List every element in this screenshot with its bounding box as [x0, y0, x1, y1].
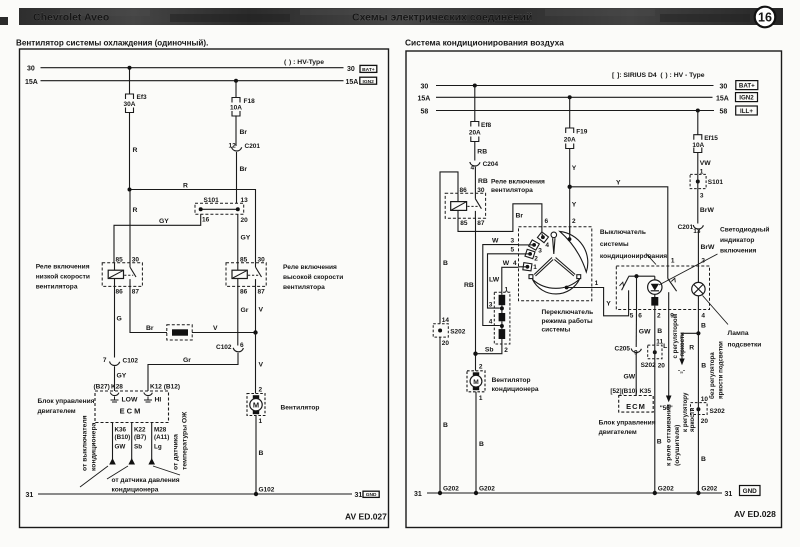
svg-text:(B27): (B27) — [94, 383, 110, 390]
fuse F19 20A — [566, 128, 574, 149]
svg-text:[52](B10): [52](B10) — [610, 388, 637, 395]
ground node G202 (motor) — [474, 491, 478, 495]
wire R horizontal: junction to right branch — [130, 190, 256, 263]
relay K1 coil — [108, 270, 123, 278]
svg-text:1: 1 — [533, 264, 537, 271]
wire Y: F19 down to junction — [569, 149, 571, 187]
svg-text:20A: 20A — [564, 136, 576, 143]
header bar — [19, 8, 783, 25]
svg-text:VW: VW — [700, 160, 712, 167]
right contact arc — [560, 231, 588, 272]
svg-text:-„-: -„- — [678, 369, 685, 375]
wire RB: C204 to relay K3 pin30 — [474, 167, 476, 194]
splice S101 — [195, 197, 248, 224]
svg-text:Br: Br — [516, 213, 524, 220]
svg-text:RB: RB — [464, 282, 474, 289]
bus 15A (left panel) — [41, 80, 344, 82]
label: от датчика давления кондиционера — [112, 477, 180, 494]
junction bus58/Ef15 — [696, 109, 700, 113]
svg-text:86: 86 — [460, 187, 468, 194]
svg-text:Sb: Sb — [485, 347, 494, 354]
label: Блок управления двигателем (right) — [599, 420, 656, 437]
svg-text:Лампа: Лампа — [728, 330, 749, 337]
wire GY: S101 pin16 to relay K1 pin85 — [114, 214, 201, 262]
svg-text:K22: K22 — [134, 427, 146, 434]
arrow from A/C pressure sensor signal — [128, 458, 135, 465]
svg-text:Вентилятор: Вентилятор — [281, 405, 320, 412]
wire Y: mode switch pin1 out to A/C switch pin5 — [567, 288, 629, 316]
svg-text:BAT+: BAT+ — [739, 83, 755, 90]
wire GW: SW2 pin6 to C205-9 — [635, 309, 637, 347]
leader to SW2 box — [646, 254, 656, 265]
svg-text:87: 87 — [477, 220, 485, 227]
svg-text:AV ED.027: AV ED.027 — [345, 512, 387, 522]
svg-text:кондиционера: кондиционера — [91, 422, 98, 471]
wire G: K1 pin86 to C102-7 — [114, 286, 116, 357]
ECM internal ground LOW — [111, 397, 119, 403]
svg-text:13: 13 — [693, 228, 701, 235]
SW2 LED series resistor — [654, 294, 656, 297]
svg-text:15A: 15A — [25, 79, 38, 86]
wire Y: junction to A/C switch pin1 — [570, 187, 668, 266]
svg-text:K28: K28 — [111, 383, 123, 390]
svg-text:подсветки: подсветки — [728, 342, 762, 349]
svg-text:яркости: яркости — [689, 407, 696, 432]
svg-text:2: 2 — [479, 363, 483, 370]
wire Gr: C102-6 to ECM pin K12 — [148, 353, 238, 391]
left panel border — [20, 49, 389, 528]
svg-text:10A: 10A — [230, 105, 242, 112]
connector C205 pin9 — [615, 346, 642, 357]
relay K2 contact — [255, 263, 257, 267]
wire: bus30 to fuse Ef8 — [474, 86, 476, 122]
ground node G202 (lamp B) — [696, 491, 700, 495]
svg-text:4: 4 — [471, 165, 475, 172]
svg-text:31: 31 — [355, 492, 363, 499]
junction Y node — [568, 185, 572, 189]
wire BrW: C201-13 to A/C switch pin3 — [697, 230, 699, 266]
svg-text:Y: Y — [572, 165, 577, 172]
junction bus15A/F19 — [568, 95, 572, 99]
svg-text:[ ]: SIRIUS D4 ( ) : HV - T: [ ]: SIRIUS D4 ( ) : HV - Type — [612, 72, 705, 79]
svg-text:HI: HI — [155, 397, 162, 404]
svg-text:с регулятором: с регулятором — [672, 313, 679, 358]
svg-text:1: 1 — [671, 258, 675, 265]
SW2 right contact (pins 1-9) — [667, 266, 669, 279]
svg-text:4: 4 — [545, 242, 549, 249]
svg-text:6: 6 — [638, 312, 642, 319]
svg-text:GW: GW — [624, 374, 636, 381]
op ECM block (right panel) — [619, 396, 654, 413]
wire RB: K3 pin87 down to A/C fan motor — [475, 218, 477, 371]
contact pad position 4 — [537, 232, 548, 243]
svg-text:M: M — [473, 379, 479, 386]
wire W/LW: mode pin4 to resistor pin1 — [519, 266, 528, 268]
relay K1 (low speed fan relay) — [102, 256, 142, 295]
svg-text:5: 5 — [630, 312, 634, 319]
svg-text:5: 5 — [511, 247, 515, 254]
resistor tap junctions — [500, 306, 504, 310]
svg-text:Система кондиционирования возд: Система кондиционирования воздуха — [405, 38, 564, 48]
GND tag box (right panel) — [740, 486, 761, 496]
rotated label: с регулятором яркости — [672, 313, 686, 358]
label: Блок управления двигателем — [38, 398, 95, 415]
switch SW1 mode selector (rotary) — [519, 218, 592, 301]
svg-text:3: 3 — [489, 301, 493, 308]
GND tag box (left panel) — [363, 491, 379, 498]
svg-text:B: B — [657, 328, 662, 335]
fuse Ef8 20A — [471, 122, 479, 142]
svg-text:3: 3 — [538, 247, 542, 254]
svg-text:Gr: Gr — [183, 357, 191, 364]
svg-text:Chevrolet Aveo: Chevrolet Aveo — [33, 12, 109, 24]
svg-text:BrW: BrW — [701, 244, 716, 251]
page number circle 16 — [755, 7, 776, 28]
rotated label: к регулятору яркости — [682, 392, 696, 432]
IGN2 tag box (right) — [736, 93, 758, 102]
ECM pin K28 socket arc — [110, 393, 119, 396]
svg-text:6: 6 — [240, 342, 244, 349]
svg-text:Sb: Sb — [134, 444, 142, 451]
svg-text:1: 1 — [259, 418, 263, 425]
bus 15A (right panel) — [436, 96, 713, 98]
svg-text:15A: 15A — [346, 79, 359, 86]
svg-text:вентилятора: вентилятора — [283, 284, 325, 291]
svg-text:S202: S202 — [710, 408, 726, 415]
label: Реле включения низкой скорости вентилятора — [36, 263, 90, 290]
svg-text:4: 4 — [701, 312, 705, 319]
svg-text:30: 30 — [477, 187, 485, 194]
bottom arc contact dot — [565, 286, 569, 290]
motor M2 A/C condenser fan — [467, 371, 485, 402]
svg-text:B: B — [701, 363, 706, 370]
svg-text:(B7): (B7) — [134, 434, 146, 441]
svg-text:4: 4 — [513, 260, 517, 267]
svg-text:4: 4 — [489, 319, 493, 326]
wire B: motor M2 to ground G202 — [475, 392, 477, 493]
svg-text:20: 20 — [241, 217, 249, 224]
connector C102 pin6 — [216, 342, 244, 352]
svg-text:58: 58 — [421, 109, 429, 116]
svg-text:87: 87 — [258, 289, 266, 296]
svg-text:R: R — [689, 345, 694, 352]
BAT+ tag box — [360, 65, 377, 73]
connector C201 pin13 — [678, 224, 704, 235]
svg-text:C102: C102 — [123, 358, 139, 365]
svg-text:V: V — [259, 362, 264, 369]
svg-text:GW: GW — [115, 444, 126, 451]
wire BrW: S101 to C201-13 — [697, 189, 699, 224]
svg-text:C201: C201 — [245, 143, 261, 150]
svg-text:B: B — [701, 322, 706, 329]
svg-text:58: 58 — [720, 109, 728, 116]
svg-text:Схемы электрических соединений: Схемы электрических соединений — [352, 12, 532, 24]
svg-text:режима работы: режима работы — [542, 317, 593, 325]
svg-text:16: 16 — [202, 217, 210, 224]
svg-text:B: B — [479, 441, 484, 448]
svg-text:вентилятора: вентилятора — [491, 187, 533, 194]
svg-text:IGN2: IGN2 — [362, 79, 374, 85]
scan artifact left edge — [0, 17, 8, 25]
wire GW: C205 to ECM K35 — [635, 353, 637, 395]
svg-text:S202: S202 — [450, 329, 466, 336]
wire B: S202 pin20 to ground G202 — [439, 337, 441, 493]
svg-text:Светодиодный: Светодиодный — [720, 225, 769, 233]
svg-text:(осушителя): (осушителя) — [674, 425, 681, 466]
svg-text:включения: включения — [720, 247, 757, 254]
svg-text:10A: 10A — [692, 142, 704, 149]
junction R node — [128, 188, 132, 192]
svg-text:яркости подсветки: яркости подсветки — [717, 341, 724, 399]
connector C102 pin7 — [103, 357, 139, 366]
leader to LED — [659, 254, 718, 285]
svg-text:V: V — [213, 325, 218, 332]
svg-text:Реле включения: Реле включения — [36, 263, 90, 270]
label: Реле включения высокой скорости вентилятора — [283, 264, 343, 291]
svg-text:Ef8: Ef8 — [481, 122, 492, 129]
svg-text:30: 30 — [421, 84, 429, 91]
bus 30 (right panel) — [436, 85, 714, 87]
arrow to terminal 56 — [666, 396, 672, 403]
rotor spokes — [534, 238, 575, 276]
svg-text:F19: F19 — [576, 129, 588, 136]
svg-text:L: L — [663, 343, 667, 350]
svg-text:30: 30 — [132, 256, 140, 263]
svg-text:86: 86 — [240, 289, 248, 296]
svg-text:LOW: LOW — [122, 397, 138, 404]
svg-text:Выключатель: Выключатель — [600, 229, 646, 236]
svg-text:2: 2 — [534, 255, 538, 262]
wire RB: Ef8 to C204 — [474, 142, 476, 161]
svg-text:двигателем: двигателем — [38, 408, 76, 415]
svg-text:14: 14 — [442, 317, 450, 324]
svg-text:G202: G202 — [701, 485, 717, 492]
op ECM block — [95, 391, 169, 423]
svg-text:Gr: Gr — [241, 307, 249, 314]
svg-text:Br: Br — [240, 166, 248, 173]
svg-text:30: 30 — [347, 66, 355, 73]
leader to lamp — [703, 296, 729, 325]
wire: bus58 to fuse Ef15 — [697, 111, 699, 135]
svg-text:ECM: ECM — [120, 407, 143, 416]
relay K2 coil — [232, 270, 247, 278]
svg-text:3: 3 — [700, 193, 704, 200]
wire W: mode pin3 to resistor pin4 — [519, 244, 535, 246]
wire B: motor pin1 to ground G102 — [255, 416, 257, 495]
label: Выключатель системы кондиционирования — [600, 229, 667, 260]
svg-text:3: 3 — [511, 237, 515, 244]
splice S202 (pin11/20) — [641, 339, 666, 370]
svg-text:B: B — [701, 456, 706, 463]
svg-text:высокой скорости: высокой скорости — [283, 273, 343, 281]
svg-text:( ) : HV-Type: ( ) : HV-Type — [284, 59, 324, 66]
svg-text:1: 1 — [595, 280, 599, 287]
wire: bus15A to fuse F19 — [569, 97, 571, 128]
resistor element 2 — [499, 313, 506, 321]
wire stub mode pin6 to pad4 — [542, 234, 543, 238]
wire VW: Ef15 to S101 — [697, 153, 699, 175]
svg-text:16: 16 — [758, 10, 772, 24]
svg-text:температуры ОЖ: температуры ОЖ — [182, 411, 189, 470]
label: Реле включения вентилятора — [491, 179, 545, 194]
ground node G102 — [254, 492, 258, 496]
connector C204 pin4 — [470, 161, 499, 172]
bus labels left panel — [25, 66, 362, 499]
rotated label: от выключателя кондиционера — [82, 415, 98, 471]
svg-text:G202: G202 — [443, 485, 459, 492]
svg-text:AV ED.028: AV ED.028 — [734, 509, 776, 519]
svg-text:Вентилятор системы охлаждения: Вентилятор системы охлаждения (одиночный… — [16, 39, 208, 48]
svg-text:Переключатель: Переключатель — [542, 309, 594, 316]
svg-text:Блок управления: Блок управления — [38, 398, 95, 405]
ILL+ tag box — [736, 106, 758, 115]
junction RB/Sb node — [473, 352, 477, 356]
label: Лампа подсветки — [728, 330, 762, 349]
svg-text:M: M — [253, 401, 259, 410]
wire: bus30 to fuse Ef3 — [129, 68, 131, 94]
relay K3 coil — [451, 202, 467, 211]
svg-text:S101: S101 — [204, 197, 220, 204]
svg-text:GY: GY — [241, 235, 251, 242]
wire Br: fuse F18 to connector C201-12 — [235, 115, 237, 146]
svg-text:двигателем: двигателем — [599, 429, 637, 436]
SW2 LED indicator — [648, 280, 662, 294]
label: Светодиодный индикатор включения — [720, 225, 769, 254]
svg-text:6: 6 — [545, 218, 549, 225]
svg-text:C205: C205 — [615, 346, 631, 353]
svg-text:20A: 20A — [469, 130, 481, 137]
ECM internal ground HI — [144, 397, 152, 403]
svg-text:Y: Y — [606, 301, 611, 308]
svg-text:RB: RB — [478, 178, 488, 185]
junction bus15A/F18 — [234, 79, 238, 83]
svg-text:LW: LW — [489, 277, 500, 284]
motor M1 cooling fan — [247, 386, 265, 425]
wire B: SW2 pin4 (lamp) down — [697, 309, 699, 402]
svg-text:W: W — [503, 260, 510, 267]
svg-text:Ef15: Ef15 — [704, 135, 718, 142]
bus 31 ground (left panel) — [38, 493, 352, 495]
svg-text:GND: GND — [366, 492, 377, 498]
rotated label: к реле оттаивания (осушителя) — [666, 404, 682, 466]
svg-text:системы: системы — [600, 241, 629, 248]
svg-text:от датчика давления: от датчика давления — [112, 477, 180, 484]
node V junction — [253, 330, 257, 334]
bottom contact arc — [532, 279, 579, 294]
svg-text:87: 87 — [132, 289, 140, 296]
svg-text:GND: GND — [743, 488, 758, 495]
resistor element 3 — [499, 329, 506, 339]
svg-text:K36: K36 — [115, 427, 127, 434]
svg-text:20: 20 — [701, 418, 709, 425]
wire Sb: resistor pin2 to RB node — [476, 339, 502, 354]
svg-text:Реле включения: Реле включения — [283, 264, 337, 271]
svg-text:13: 13 — [241, 197, 249, 204]
relay K1 contact — [129, 263, 131, 267]
svg-text:7: 7 — [103, 357, 107, 364]
IGN2 tag box — [360, 77, 377, 85]
svg-text:Lg: Lg — [154, 444, 162, 451]
wire Gr: K2 pin86 to C102-6 — [237, 286, 239, 345]
svg-text:85: 85 — [240, 256, 248, 263]
svg-text:M28: M28 — [154, 427, 167, 434]
svg-text:15A: 15A — [716, 96, 729, 103]
wire: mode pin5 to resistor pin3 — [519, 253, 531, 255]
svg-text:V: V — [259, 307, 264, 314]
arrow from coolant temp sensor signal — [148, 458, 155, 465]
bus 58 (right panel) — [436, 110, 714, 112]
ground node G202 (switch B) — [653, 491, 657, 495]
wire GY: S101 pin20 to relay K2 pin85 — [237, 214, 239, 262]
svg-text:30: 30 — [27, 66, 35, 73]
svg-text:B: B — [259, 450, 264, 457]
svg-text:31: 31 — [725, 491, 733, 498]
svg-text:без регулятора: без регулятора — [709, 352, 716, 399]
svg-text:R: R — [183, 183, 188, 190]
svg-text:Вентилятор: Вентилятор — [492, 377, 531, 384]
splice S202 (pin14/20) — [433, 317, 466, 347]
arrow from A/C switch signal — [109, 458, 116, 465]
svg-text:низкой скорости: низкой скорости — [36, 272, 90, 280]
wire L: SW2 pin9 down to terminal 56 — [668, 309, 670, 395]
svg-text:C204: C204 — [483, 161, 499, 168]
svg-text:85: 85 — [116, 256, 124, 263]
svg-text:индикатор: индикатор — [720, 237, 754, 244]
svg-text:Блок управления: Блок управления — [599, 420, 656, 427]
svg-text:Реле включения: Реле включения — [491, 179, 545, 186]
svg-text:10: 10 — [701, 396, 709, 403]
label: Вентилятор кондиционера — [492, 377, 539, 393]
svg-text:30: 30 — [258, 256, 266, 263]
svg-text:яркости: яркости — [679, 332, 686, 357]
svg-text:Y: Y — [572, 202, 577, 209]
svg-text:кондиционера: кондиционера — [112, 487, 159, 494]
svg-text:ILL+: ILL+ — [740, 108, 753, 115]
svg-text:ECM: ECM — [626, 402, 646, 411]
svg-text:15A: 15A — [418, 96, 431, 103]
wire V: K2 pin87 to node V — [255, 286, 257, 332]
relay K3 contact — [474, 193, 476, 199]
wire V: node V to motor pin 2 — [255, 333, 257, 394]
svg-text:31: 31 — [26, 492, 34, 499]
splice S202 (pin10/20) — [691, 396, 726, 425]
wire B: S202 pin20 to ground G202 (lamp circuit) — [697, 415, 699, 494]
svg-text:F18: F18 — [244, 98, 256, 105]
wire Br: K3 pin85 to mode switch pin6 — [458, 204, 542, 234]
svg-text:2: 2 — [572, 218, 576, 225]
svg-text:G202: G202 — [479, 485, 495, 492]
svg-text:20: 20 — [658, 362, 666, 369]
relay K2 (high speed fan relay) — [226, 256, 266, 295]
svg-text:от датчика: от датчика — [173, 434, 180, 470]
wire GY: C102-7 to ECM pin K28 — [114, 366, 116, 391]
svg-text:2: 2 — [259, 386, 263, 393]
contact pad position 1 — [523, 263, 532, 271]
svg-text:S202: S202 — [641, 362, 657, 369]
svg-text:от выключателя: от выключателя — [82, 415, 89, 471]
fuse F18 10A — [232, 98, 240, 117]
svg-text:B: B — [443, 422, 448, 429]
svg-text:IGN2: IGN2 — [739, 95, 754, 102]
svg-text:кондиционирования: кондиционирования — [600, 253, 667, 260]
svg-text:BAT+: BAT+ — [362, 67, 375, 73]
right panel border — [406, 51, 782, 528]
svg-text:вентилятора: вентилятора — [36, 284, 78, 291]
contact pad position 2 — [525, 249, 535, 258]
wire B: S202 pin20 to ground G202 — [654, 359, 656, 493]
wire R: to brightness regulator (branch) — [682, 333, 698, 358]
svg-text:12: 12 — [229, 143, 237, 150]
